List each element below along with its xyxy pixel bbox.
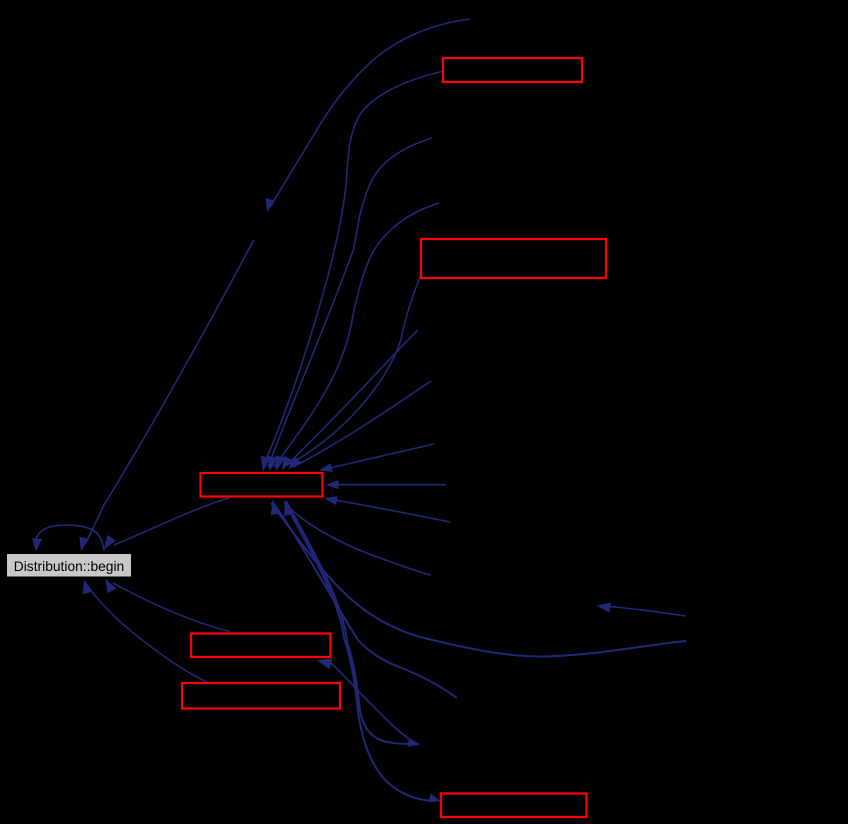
edge R2 node to hub bottom F [273,502,458,698]
node grey current function Distribution::begin [7,554,132,578]
edge box5 to grey box [113,583,230,632]
arrowhead hub top 3 [275,455,285,471]
arrowhead self loop [32,538,42,551]
arrowhead grey top from hub [104,535,116,550]
edge W1 stub to hub bottom F [290,508,431,575]
arrowhead hub top-right corner [319,463,333,472]
edge stub3 to hub [268,138,432,467]
node box7 red box [441,794,587,818]
svg-text:Distribution::begin: Distribution::begin [14,559,124,574]
arrowhead blob at invisible node right [407,738,420,747]
arrowhead hub right edge [326,480,339,489]
arrowhead hub bottom E [271,500,281,516]
arrowhead curve1 invisible node [266,198,276,212]
edge G blob node to box5 bottom-right [330,663,419,745]
edge far right node to invisible node H [610,607,686,617]
arrowhead hub top 5 [288,456,301,469]
arrowhead grey bottom from box5 [105,579,116,594]
arrowhead grey bottom from box6 [83,580,93,595]
edge T1 node-blob to hub bottom E [286,501,414,744]
edge stub4 to hub [274,203,439,467]
edge box6 to grey box [88,586,207,682]
edge curve1 from top stub to invisible node [270,19,470,207]
arrowhead H [596,603,611,613]
edge stub7 to hub [293,381,431,467]
arrowhead hub top 4 [282,456,292,471]
arrowhead into box7 left edge [428,794,441,803]
arrowhead hub bottom-right corner [324,496,338,505]
node box5 red box [191,634,331,658]
edge R1 far-right node to hub bottom F [271,503,686,657]
node hub red box [201,473,323,497]
arrowhead into box5 bottom-right [317,659,333,670]
arrowhead hub bottom F [284,501,294,517]
node box6 red box [182,683,340,709]
arrowhead hub top 2 [268,456,278,472]
edge invisible node to grey long line [85,240,254,545]
edge B1 to hub [263,72,442,468]
edge stub10 to hub bottom-right corner [334,500,450,522]
edge hub to grey box [114,498,229,545]
node B1 red box [443,58,582,82]
edge stub8 to hub top-right corner [330,444,434,468]
arrowhead grey top from long line [79,537,89,552]
edge S1 box7 to hub bottom E [285,502,434,801]
edge B2 to hub [283,277,420,467]
edge self loop on grey box [35,525,104,551]
edge stub6 to hub [287,330,418,465]
edge stub9 horizontal to hub right edge [334,484,446,486]
arrowhead hub top 1 [261,456,271,472]
node B2 red box two-line [421,239,606,278]
